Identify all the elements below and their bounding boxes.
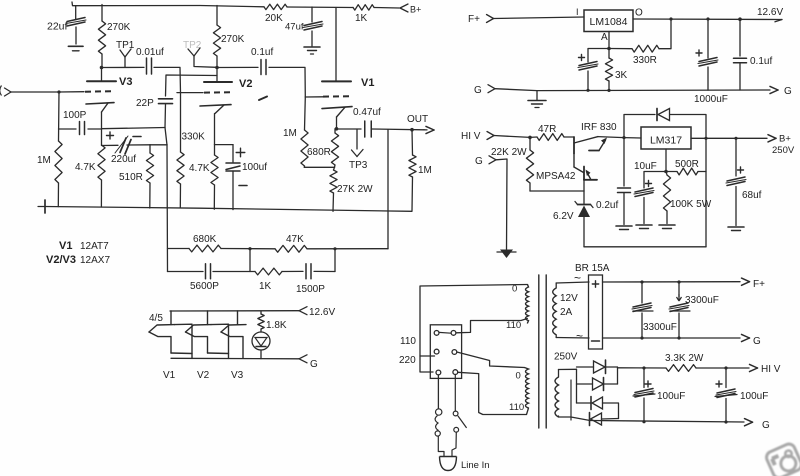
label heater V3 bbox=[231, 370, 244, 381]
svg-text:BR 15A: BR 15A bbox=[575, 263, 610, 274]
capacitor 0.1uf (12.6V) bbox=[734, 19, 773, 90]
wire switch to coil2 0 bbox=[457, 352, 525, 382]
svg-text:12AX7: 12AX7 bbox=[80, 255, 110, 266]
node B+ arrow bbox=[400, 4, 421, 15]
svg-text:HI V: HI V bbox=[461, 131, 481, 142]
svg-text:0: 0 bbox=[516, 371, 521, 382]
svg-text:68uf: 68uf bbox=[742, 190, 762, 201]
wire heater G rail bbox=[171, 357, 299, 360]
wire V1 grid lead bbox=[305, 96, 323, 98]
wire 1M bottom to 680R node bbox=[304, 166, 334, 168]
svg-text:4.7K: 4.7K bbox=[75, 162, 96, 173]
node heater G arrow bbox=[299, 355, 318, 370]
capacitor 68uf bbox=[726, 138, 762, 225]
resistor 22K 2W bbox=[491, 137, 534, 191]
wire sec2 top bbox=[559, 369, 577, 403]
label V2 bbox=[239, 78, 252, 90]
svg-text:100uF: 100uF bbox=[657, 391, 685, 402]
bridge BR 15A bbox=[589, 275, 603, 349]
svg-text:330R: 330R bbox=[633, 55, 657, 66]
resistor R 1M (load) bbox=[409, 130, 432, 211]
wire row2 c bbox=[314, 270, 335, 272]
svg-text:12V: 12V bbox=[560, 293, 578, 304]
label pin I bbox=[576, 7, 579, 17]
svg-text:I: I bbox=[576, 7, 579, 17]
label 250V bbox=[554, 352, 578, 363]
resistor 27K 2W bbox=[330, 167, 373, 211]
svg-text:LM1084: LM1084 bbox=[590, 16, 628, 28]
wire stray mark bbox=[259, 97, 267, 101]
svg-text:1K: 1K bbox=[355, 13, 368, 24]
wire B+ top rail bbox=[72, 2, 399, 8]
wire 12.6V output rail bbox=[633, 17, 782, 21]
capacitor 100uF b bbox=[715, 368, 768, 422]
test point TP1 bbox=[116, 40, 135, 67]
wire feedback row1 left bbox=[168, 248, 190, 250]
switch power bbox=[452, 375, 466, 457]
svg-text:IRF 830: IRF 830 bbox=[581, 122, 617, 133]
LED indicator bbox=[252, 332, 270, 359]
wire feedback right vertical bbox=[387, 130, 389, 249]
svg-text:0.1uf: 0.1uf bbox=[750, 56, 772, 67]
test point TP2 bbox=[183, 40, 216, 67]
ground (68uf) bbox=[728, 227, 744, 231]
diode D1 bbox=[577, 360, 618, 384]
tube V3 grid bbox=[85, 90, 115, 93]
resistor 330R bbox=[611, 19, 671, 66]
svg-text:Line In: Line In bbox=[461, 460, 490, 471]
svg-text:22K 2W: 22K 2W bbox=[491, 147, 527, 158]
diode D2 bbox=[577, 378, 618, 391]
svg-text:V2: V2 bbox=[197, 370, 210, 381]
label V3 bbox=[119, 76, 132, 88]
op-amp U LM317 bbox=[641, 127, 691, 149]
fuse bbox=[435, 409, 444, 457]
svg-text:V1: V1 bbox=[361, 77, 374, 89]
svg-text:1000uF: 1000uF bbox=[694, 94, 728, 105]
wire row2 a bbox=[213, 271, 255, 273]
capacitor 22uf bbox=[47, 6, 86, 44]
wire F+ to LM1084 bbox=[494, 17, 585, 19]
label 4/5 bbox=[149, 313, 163, 324]
capacitor 220uf bbox=[102, 132, 151, 165]
svg-text:OUT: OUT bbox=[407, 114, 428, 125]
tube V2 cathode bbox=[200, 105, 231, 155]
label V1 type bbox=[59, 240, 109, 252]
wire row divider left bbox=[249, 249, 251, 272]
svg-text:0.2uf: 0.2uf bbox=[596, 200, 618, 211]
svg-text:220uf: 220uf bbox=[111, 154, 136, 165]
switch mains selector bbox=[430, 325, 461, 379]
svg-text:110: 110 bbox=[506, 320, 521, 331]
node G arrow (12V) bbox=[742, 334, 762, 347]
resistor 510R bbox=[119, 145, 154, 208]
wire feedback row2 left bbox=[168, 271, 204, 273]
capacitor 0.2uf bbox=[596, 138, 631, 225]
wire coil1 110 tap bbox=[456, 319, 527, 333]
tube heater V2 bbox=[186, 311, 229, 358]
capacitor 47uf bbox=[285, 7, 323, 46]
svg-text:0.1uf: 0.1uf bbox=[251, 47, 273, 58]
svg-text:100uF: 100uF bbox=[740, 391, 768, 402]
svg-text:1K: 1K bbox=[259, 281, 272, 292]
svg-text:1M: 1M bbox=[418, 165, 432, 176]
svg-text:47uf: 47uf bbox=[285, 22, 304, 33]
svg-text:12AT7: 12AT7 bbox=[80, 241, 109, 252]
wire row1 right bbox=[307, 247, 388, 250]
svg-text:110: 110 bbox=[400, 336, 416, 347]
capacitor 1000uF bbox=[694, 19, 728, 105]
resistor R 270K (V3 plate load) bbox=[98, 5, 130, 68]
tube V2 grid bbox=[204, 91, 232, 93]
label 110 bbox=[400, 336, 416, 347]
tube V1 grid bbox=[323, 95, 352, 97]
wire 220 tap bbox=[420, 355, 435, 357]
label V1 bbox=[361, 77, 374, 89]
wire row divider right bbox=[334, 249, 336, 272]
ground (100K) bbox=[659, 225, 675, 229]
svg-text:12.6V: 12.6V bbox=[757, 7, 783, 18]
resistor R 1M (V1 grid) bbox=[283, 97, 308, 167]
diode D4 bbox=[590, 413, 619, 426]
wire 22P down bbox=[164, 104, 167, 128]
wire G rail (250V) bbox=[590, 420, 744, 424]
svg-text:A: A bbox=[601, 32, 608, 43]
node HI V arrow bbox=[750, 364, 781, 375]
wire input to V3 grid bbox=[11, 91, 84, 93]
resistor 680K bbox=[189, 234, 221, 252]
resistor 20K bbox=[264, 4, 287, 24]
svg-text:270K: 270K bbox=[107, 22, 131, 33]
node G arrow right bbox=[770, 86, 792, 97]
wire cap to V2 grid corner bbox=[154, 67, 181, 92]
svg-text:1500P: 1500P bbox=[296, 284, 325, 295]
node V1 cathode out bbox=[335, 127, 361, 131]
wire G down bbox=[496, 159, 507, 250]
svg-text:510R: 510R bbox=[119, 172, 143, 183]
capacitor (A-node electrolytic) bbox=[578, 49, 609, 91]
node switch terminals bbox=[434, 331, 457, 375]
wire primary outer bbox=[420, 285, 528, 373]
label V2/V3 type bbox=[46, 254, 110, 266]
svg-text:100K 5W: 100K 5W bbox=[670, 199, 712, 210]
node 12.6V arrow bbox=[299, 307, 335, 318]
svg-text:F+: F+ bbox=[753, 279, 765, 290]
svg-text:MPSA42: MPSA42 bbox=[536, 171, 576, 182]
svg-text:47R: 47R bbox=[538, 124, 556, 135]
svg-text:22P: 22P bbox=[136, 98, 154, 109]
coil secondary 12V bbox=[553, 282, 589, 338]
resistor 4.7K (V2) bbox=[189, 155, 218, 209]
node V3 plate bbox=[100, 66, 104, 81]
svg-text:12.6V: 12.6V bbox=[309, 307, 335, 318]
svg-text:2A: 2A bbox=[560, 307, 573, 318]
wire ground rail bbox=[45, 207, 412, 212]
svg-text:TP3: TP3 bbox=[349, 160, 368, 171]
svg-text:1.8K: 1.8K bbox=[266, 320, 287, 331]
wire out bbox=[372, 128, 424, 132]
wire B+ right rail down bbox=[705, 138, 707, 247]
svg-text:22uf: 22uf bbox=[47, 21, 68, 33]
node V2 plate junction bbox=[215, 66, 219, 70]
coil primary 1 bbox=[512, 284, 529, 324]
node HI V header bbox=[461, 131, 494, 142]
wire cathode node to 22P junction bbox=[150, 144, 167, 146]
resistor 1K bbox=[353, 5, 374, 24]
decor watermark bbox=[765, 442, 800, 476]
test point TP3 bbox=[349, 130, 368, 172]
label pin O bbox=[635, 8, 643, 19]
resistor 47K bbox=[275, 234, 307, 252]
label heater V2 bbox=[197, 370, 210, 381]
wire G rail bbox=[495, 89, 770, 92]
resistor 1.8K bbox=[258, 311, 287, 332]
svg-text:1M: 1M bbox=[37, 155, 51, 166]
svg-text:TP1: TP1 bbox=[116, 40, 135, 51]
tube heater V3 bbox=[221, 311, 246, 358]
capacitor 22P bbox=[136, 98, 173, 109]
diode zener 6.2V bbox=[553, 191, 593, 247]
svg-text:3300uF: 3300uF bbox=[643, 322, 677, 333]
capacitor 3300uF b bbox=[669, 282, 719, 338]
ground bbox=[68, 46, 83, 51]
wire row2 b bbox=[282, 270, 303, 272]
wire V2 plate lead bbox=[216, 68, 218, 82]
wire V2 plate to 0.1uf bbox=[217, 47, 273, 68]
svg-text:250V: 250V bbox=[772, 145, 795, 156]
svg-text:3.3K 2W: 3.3K 2W bbox=[665, 353, 704, 364]
resistor 4.7K (V3) bbox=[75, 129, 105, 207]
svg-text:220: 220 bbox=[399, 355, 416, 366]
wire A pin bbox=[607, 32, 611, 51]
tube V3 cathode bbox=[86, 103, 114, 129]
svg-text:3K: 3K bbox=[615, 70, 628, 81]
node input jack bbox=[0, 86, 11, 97]
capacitor 0.1uf bbox=[261, 60, 266, 75]
tube V2 plate bbox=[204, 81, 232, 83]
svg-text:G: G bbox=[762, 420, 770, 431]
resistor R 1M (input) bbox=[37, 90, 62, 206]
wire cathode junction to 22P line bbox=[102, 128, 168, 146]
resistor 47R bbox=[530, 124, 574, 140]
svg-text:270K: 270K bbox=[221, 34, 245, 45]
resistor 3.3K 2W bbox=[665, 353, 704, 371]
ground bbox=[38, 200, 45, 213]
capacitor 10uF bbox=[634, 172, 666, 224]
wire feedback left vertical bbox=[166, 145, 169, 272]
svg-text:680R: 680R bbox=[307, 147, 331, 158]
diode D3 bbox=[577, 397, 619, 419]
svg-text:100P: 100P bbox=[63, 110, 87, 121]
svg-text:0: 0 bbox=[512, 284, 517, 295]
wire coil2 110 tap bbox=[458, 372, 529, 414]
resistor 330K (V2 grid leak) bbox=[177, 93, 205, 208]
capacitor 100P bbox=[59, 110, 102, 135]
wire fuse branch bbox=[437, 375, 439, 408]
wire ADJ pin bbox=[664, 149, 668, 173]
svg-text:V2: V2 bbox=[239, 78, 252, 90]
resistor 1K (feedback) bbox=[255, 268, 282, 292]
svg-text:G: G bbox=[753, 336, 761, 347]
svg-text:B+: B+ bbox=[779, 134, 791, 145]
svg-text:3300uF: 3300uF bbox=[685, 295, 719, 306]
transistor Q IRF 830 bbox=[574, 122, 624, 154]
svg-text:B+: B+ bbox=[410, 5, 421, 15]
capacitor 100uf (V2) bbox=[215, 145, 268, 210]
ground (LM1084) bbox=[528, 91, 546, 108]
ground (10uF) bbox=[636, 225, 652, 229]
svg-text:110: 110 bbox=[509, 402, 524, 413]
wire LM317 out bbox=[691, 137, 767, 140]
wire heater 12.6V rail bbox=[170, 310, 299, 312]
label 10uF bbox=[634, 161, 657, 172]
ground bbox=[304, 47, 320, 54]
svg-text:G: G bbox=[474, 85, 482, 96]
label heater V1 bbox=[163, 370, 176, 381]
wire protection loop bbox=[624, 115, 706, 139]
wire 0.1uf to V1 grid bbox=[269, 67, 305, 97]
tube V3 plate bbox=[87, 80, 116, 82]
tube V1 plate bbox=[322, 80, 351, 82]
ground arrow bbox=[497, 250, 516, 259]
resistor 100K 5W bbox=[663, 172, 711, 224]
svg-text:G: G bbox=[784, 86, 792, 97]
svg-text:5600P: 5600P bbox=[190, 281, 219, 292]
svg-text:20K: 20K bbox=[265, 13, 283, 24]
capacitor 100uF a bbox=[633, 368, 685, 422]
wire emitter to zener bbox=[530, 190, 584, 192]
resistor 3K bbox=[605, 49, 627, 91]
coil primary 2 bbox=[525, 368, 529, 409]
svg-text:HI V: HI V bbox=[761, 364, 781, 375]
ground (0.2uf) bbox=[616, 226, 632, 230]
resistor 680R bbox=[307, 129, 339, 168]
label BR 15A bbox=[575, 263, 610, 274]
svg-text:G: G bbox=[475, 156, 483, 167]
node B+ 250V arrow bbox=[768, 134, 795, 157]
capacitor 3300uF a bbox=[632, 282, 677, 338]
svg-text:O: O bbox=[635, 8, 643, 19]
svg-text:V1: V1 bbox=[163, 370, 176, 381]
transformer core bbox=[539, 275, 546, 428]
wire plate node to 22P bbox=[166, 75, 218, 96]
tube heater V1 bbox=[149, 311, 192, 358]
label pin A bbox=[601, 32, 608, 43]
svg-text:0.47uf: 0.47uf bbox=[353, 107, 381, 118]
wire IRF to LM317 bbox=[622, 136, 641, 139]
svg-text:6.2V: 6.2V bbox=[553, 211, 574, 222]
node F+ arrow bbox=[742, 278, 766, 290]
wire V2 grid lead bbox=[177, 92, 203, 94]
node F+ header bbox=[468, 14, 494, 25]
svg-text:V3: V3 bbox=[231, 370, 244, 381]
svg-text:100uf: 100uf bbox=[242, 162, 267, 173]
wire HIV to 47R bbox=[494, 136, 532, 140]
svg-text:10uF: 10uF bbox=[634, 161, 657, 172]
capacitor 5600P bbox=[190, 264, 219, 292]
capacitor 0.01uf bbox=[147, 58, 152, 74]
svg-text:G: G bbox=[310, 359, 318, 370]
svg-text:4.7K: 4.7K bbox=[189, 163, 210, 174]
label 12V 2A bbox=[560, 271, 583, 343]
svg-text:0.01uf: 0.01uf bbox=[136, 47, 164, 58]
svg-text:V2/V3: V2/V3 bbox=[46, 254, 76, 266]
label 220 bbox=[399, 355, 416, 366]
svg-text:V1: V1 bbox=[59, 240, 72, 252]
wire G rail (12V) bbox=[603, 336, 741, 339]
node G header 2 bbox=[475, 156, 496, 167]
capacitor 0.47uf bbox=[353, 107, 381, 137]
svg-text:27K 2W: 27K 2W bbox=[337, 184, 373, 195]
wire V1 plate supply bbox=[335, 8, 337, 81]
wire row1 mid bbox=[221, 247, 275, 250]
svg-text:4/5: 4/5 bbox=[149, 313, 163, 324]
plug Line In bbox=[440, 457, 490, 472]
transistor Q2 MPSA42 bbox=[536, 154, 597, 192]
node OUT arrow bbox=[407, 114, 434, 134]
svg-text:47K: 47K bbox=[286, 234, 304, 245]
svg-text:F+: F+ bbox=[468, 14, 480, 25]
svg-text:1M: 1M bbox=[283, 128, 297, 139]
coil secondary 250V bbox=[555, 370, 559, 418]
svg-text:V3: V3 bbox=[119, 76, 132, 88]
resistor R 270K (V2 plate load) bbox=[213, 6, 244, 68]
wire F+ rail bbox=[603, 280, 741, 283]
resistor 500R bbox=[666, 159, 706, 175]
wire zener to right rail bbox=[584, 246, 706, 248]
wire sec2 bottom bbox=[559, 380, 591, 421]
wire V3 plate to cap bbox=[102, 47, 165, 68]
svg-text:330K: 330K bbox=[182, 132, 206, 143]
svg-text:680K: 680K bbox=[193, 234, 217, 245]
wire HIV rail b bbox=[696, 366, 749, 369]
svg-text:~: ~ bbox=[576, 329, 583, 343]
tube V1 cathode bbox=[322, 107, 352, 129]
svg-text:LM317: LM317 bbox=[650, 135, 682, 147]
capacitor 1500P bbox=[296, 264, 325, 295]
svg-text:250V: 250V bbox=[554, 352, 578, 363]
diode D (LM317 protect) bbox=[657, 109, 670, 121]
svg-text:500R: 500R bbox=[675, 159, 699, 170]
node G arrow (250V) bbox=[745, 419, 771, 431]
op-amp U LM1084 bbox=[584, 10, 633, 32]
node G header (LM1084) bbox=[474, 85, 495, 96]
label 12.6V bbox=[757, 7, 783, 18]
wire HIV rail bbox=[618, 366, 667, 369]
